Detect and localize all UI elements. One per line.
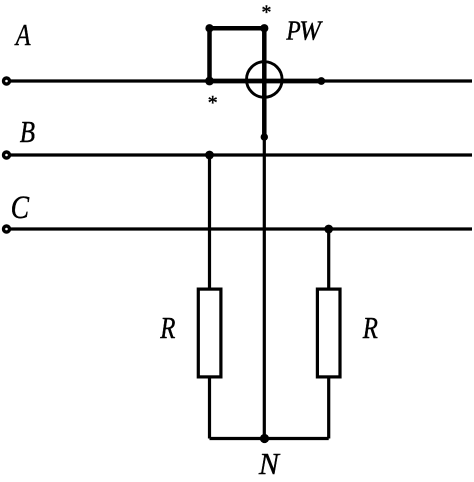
wattmeter current-coil thick segment on line A bbox=[210, 79, 322, 84]
junction dot on line B bbox=[205, 151, 214, 160]
wattmeter vertical thick lead bbox=[262, 28, 267, 137]
svg-text:N: N bbox=[258, 446, 281, 481]
node N dot bbox=[260, 434, 269, 443]
wire B branch lower bbox=[208, 377, 211, 439]
dot below wattmeter bbox=[261, 133, 268, 140]
terminal A bbox=[4, 78, 10, 84]
terminal C bbox=[4, 226, 10, 232]
svg-text:W: W bbox=[299, 15, 323, 46]
terminal B bbox=[4, 152, 10, 158]
wire line C bbox=[10, 227, 472, 230]
junction dot on line C bbox=[324, 225, 333, 234]
svg-text:A: A bbox=[14, 18, 31, 53]
node dot on line A right bbox=[317, 77, 325, 85]
wattmeter PW circle bbox=[246, 62, 282, 98]
wire C branch upper bbox=[327, 229, 330, 289]
svg-text:C: C bbox=[11, 189, 30, 226]
resistor R1 (left) bbox=[198, 289, 221, 377]
neutral bottom wire bbox=[210, 437, 329, 440]
wire B branch upper bbox=[208, 155, 211, 289]
dot square top-right bbox=[260, 24, 268, 32]
wire from wattmeter down to N bbox=[263, 137, 266, 439]
wire line B bbox=[10, 153, 472, 156]
svg-text:R: R bbox=[159, 311, 175, 345]
wattmeter voltage loop (square) bbox=[210, 28, 265, 81]
wire C branch lower bbox=[327, 377, 330, 439]
resistor R2 (right) bbox=[317, 289, 340, 377]
svg-text:*: * bbox=[261, 1, 271, 23]
svg-text:R: R bbox=[362, 311, 378, 345]
svg-text:*: * bbox=[207, 92, 217, 114]
dot square top-left bbox=[205, 24, 213, 32]
svg-text:B: B bbox=[20, 116, 35, 150]
wire line A bbox=[10, 79, 472, 82]
node dot on line A left (asterisk terminal) bbox=[205, 77, 214, 86]
